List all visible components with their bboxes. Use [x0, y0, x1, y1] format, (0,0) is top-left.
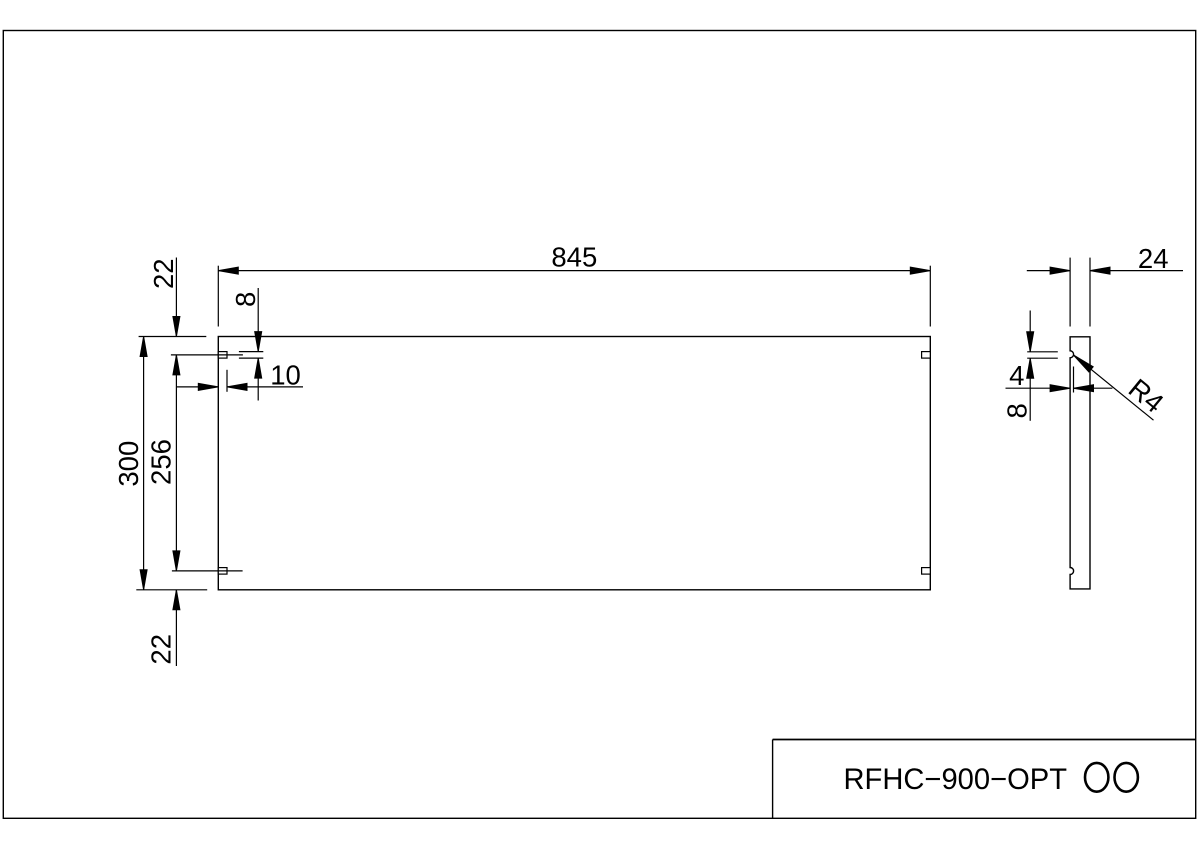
svg-text:22: 22	[148, 258, 179, 289]
svg-text:22: 22	[145, 634, 176, 665]
svg-text:8: 8	[230, 292, 261, 307]
svg-text:4: 4	[1009, 360, 1024, 391]
svg-text:24: 24	[1138, 243, 1169, 274]
svg-text:R4: R4	[1123, 373, 1170, 419]
svg-text:845: 845	[551, 241, 597, 272]
svg-text:RFHC−900−OPT: RFHC−900−OPT	[844, 763, 1068, 796]
svg-text:10: 10	[270, 360, 301, 391]
svg-text:300: 300	[113, 441, 144, 487]
svg-text:8: 8	[1001, 403, 1032, 418]
svg-text:256: 256	[145, 439, 176, 485]
